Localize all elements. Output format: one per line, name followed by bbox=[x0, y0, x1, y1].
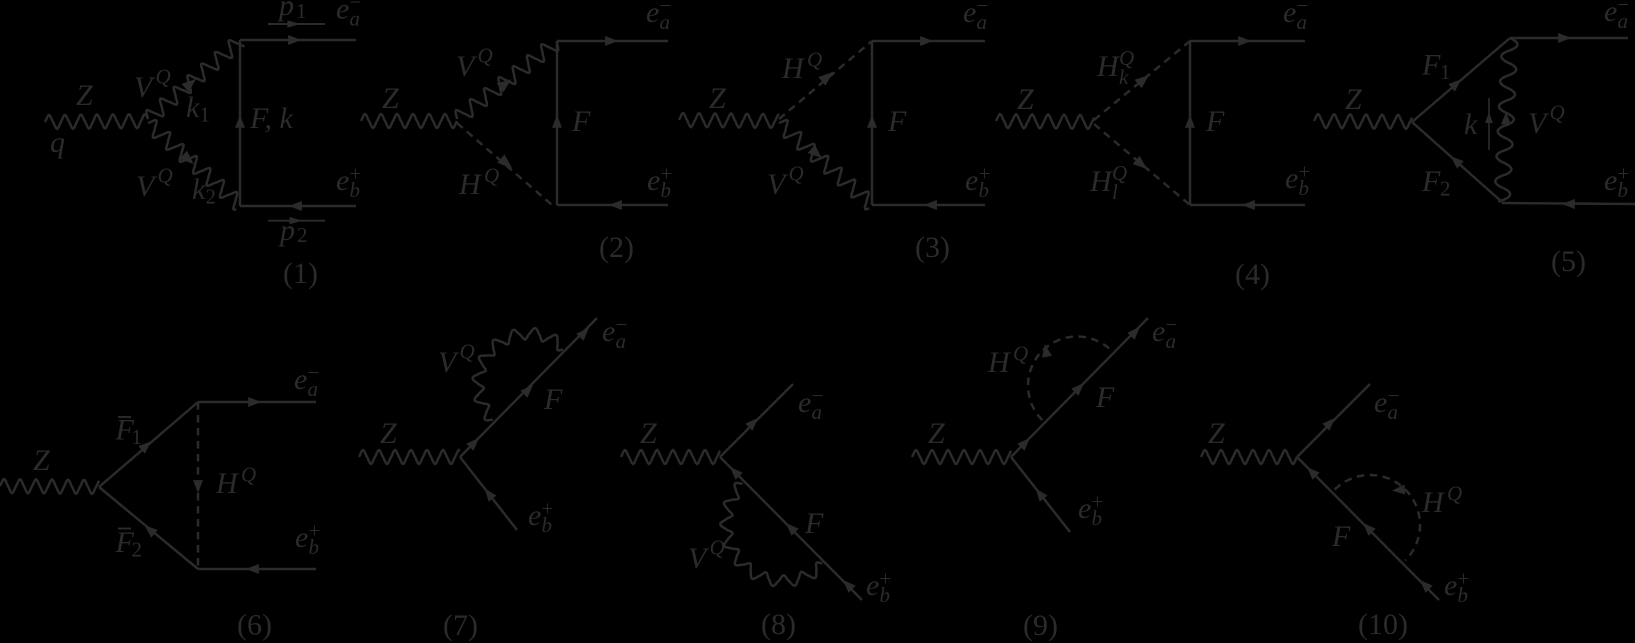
svg-text:(1): (1) bbox=[283, 257, 318, 290]
diagram 7: Z boson propagator bbox=[359, 450, 460, 464]
diagram 10: Z boson propagator bbox=[1201, 450, 1297, 464]
diagram 2: arrow on H^Q bbox=[497, 154, 512, 168]
svg-text:e+b: e+b bbox=[965, 162, 990, 202]
svg-text:Z: Z bbox=[640, 417, 657, 450]
diagram 2: arrow on V^Q bbox=[497, 79, 511, 92]
diagram 1: V^Q boson line (lower) bbox=[148, 120, 237, 210]
svg-text:(10): (10) bbox=[1358, 608, 1408, 641]
diagram 9: arrow near vertex bbox=[1017, 438, 1030, 451]
diagram 8: arrow on e_a line bbox=[745, 418, 758, 431]
diagram 9: arrow on F segment bbox=[1071, 383, 1084, 396]
diagram 5: label e_b^+ bbox=[1604, 162, 1629, 202]
svg-text:e+b: e+b bbox=[1078, 490, 1103, 530]
diagram 5: Z boson propagator bbox=[1314, 114, 1412, 129]
svg-text:F: F bbox=[571, 105, 591, 138]
diagram 10: arrow on e_a line bbox=[1322, 418, 1335, 431]
diagram 2: arrow on e_a line bbox=[605, 36, 618, 46]
svg-text:Z: Z bbox=[1208, 417, 1225, 450]
diagram 10: arrow on H^Q loop bbox=[1392, 485, 1405, 495]
svg-text:F: F bbox=[543, 383, 563, 416]
diagram 5: fermion line F2 bbox=[1412, 122, 1502, 202]
diagram 1: label Z bbox=[76, 79, 93, 112]
svg-text:F, k: F, k bbox=[249, 102, 293, 135]
diagram 2: electron line e_a bbox=[557, 40, 668, 42]
svg-text:e−a: e−a bbox=[1283, 0, 1308, 34]
diagram 9: H^Q scalar loop bbox=[1028, 337, 1112, 421]
diagram 5: momentum arrow k bbox=[1485, 98, 1493, 150]
diagram 1: arrow on F line bbox=[235, 115, 245, 128]
svg-text:(4): (4) bbox=[1235, 258, 1270, 291]
diagram 8: arrow on F segment bbox=[786, 523, 799, 536]
svg-text:q: q bbox=[50, 126, 65, 159]
diagram 5: electron line e_a bbox=[1510, 37, 1628, 39]
diagram 4: electron line e_a bbox=[1190, 40, 1305, 42]
diagram 1: label k2 bbox=[192, 173, 216, 209]
diagram 1: label p2 bbox=[278, 214, 308, 247]
diagram 3: arrow on H^Q bbox=[818, 72, 833, 86]
diagram 1: caption (1) bbox=[283, 257, 318, 290]
diagram 1: label V^Q (upper) bbox=[134, 65, 171, 105]
diagram 10: arrow on F segment bbox=[1363, 523, 1376, 536]
diagram 1: arrow on lower V^Q bbox=[180, 151, 194, 164]
diagram 4: positron line e_b bbox=[1190, 204, 1305, 206]
diagram 10: label H^Q bbox=[1421, 482, 1462, 520]
diagram 1: momentum arrow p1 bbox=[268, 20, 325, 28]
svg-text:e+b: e+b bbox=[866, 567, 891, 607]
diagram 4: arrow on upper H_k^Q bbox=[1135, 75, 1149, 88]
diagram 7: positron line e_b bbox=[460, 457, 517, 530]
diagram 7: label e_a^- bbox=[602, 313, 627, 353]
svg-text:Z: Z bbox=[76, 79, 93, 112]
svg-text:Z: Z bbox=[382, 82, 399, 115]
svg-text:(2): (2) bbox=[599, 231, 634, 264]
diagram 1: label k1 bbox=[186, 91, 210, 127]
svg-text:e+b: e+b bbox=[1604, 162, 1629, 202]
diagram 10: caption (10) bbox=[1358, 608, 1408, 641]
diagram 7: arrow on e_b line bbox=[485, 488, 497, 501]
svg-text:(3): (3) bbox=[915, 231, 950, 264]
svg-text:e+b: e+b bbox=[336, 162, 361, 202]
svg-text:Z: Z bbox=[709, 82, 726, 115]
diagram 6: H^Q scalar internal line bbox=[197, 402, 199, 569]
diagram 2: arrow on e_b line bbox=[609, 200, 622, 210]
diagram 10: electron line e_a bbox=[1297, 384, 1370, 457]
diagram 6: arrow on F1bar bbox=[138, 441, 151, 453]
diagram 2: positron line e_b bbox=[557, 204, 668, 206]
diagram 4: Z boson propagator bbox=[996, 114, 1094, 129]
diagram 4: arrow on e_a line bbox=[1238, 36, 1251, 46]
diagram 6: label H^Q bbox=[215, 463, 256, 501]
diagram 6: label F1bar bbox=[115, 414, 143, 450]
diagram 7: label Z bbox=[380, 417, 397, 450]
diagram 5: V^Q boson internal line bbox=[1495, 38, 1517, 202]
diagram 7: arrow on F segment bbox=[520, 385, 533, 398]
diagram 6: positron line e_b bbox=[198, 568, 316, 570]
diagram 5: caption (5) bbox=[1551, 245, 1586, 278]
diagram 9: label F bbox=[1095, 381, 1115, 414]
svg-text:Z: Z bbox=[1345, 83, 1362, 116]
diagram 5: fermion line F1 bbox=[1412, 38, 1510, 122]
svg-text:e−a: e−a bbox=[602, 313, 627, 353]
diagram 5: positron line e_b bbox=[1502, 203, 1635, 204]
diagram 9: positron line e_b bbox=[1011, 457, 1070, 532]
diagram 6: arrow on F2bar bbox=[145, 525, 158, 537]
diagram 6: fermion line F2bar bbox=[99, 487, 198, 569]
svg-text:e−a: e−a bbox=[294, 361, 319, 401]
diagram 8: label F bbox=[804, 507, 824, 540]
diagram 6: label Z bbox=[33, 444, 50, 477]
diagram 3: electron line e_a bbox=[872, 40, 985, 42]
diagram 8: label Z bbox=[640, 417, 657, 450]
diagram 5: label Z bbox=[1345, 83, 1362, 116]
diagram 10: label e_b^+ bbox=[1444, 567, 1469, 607]
diagram 9: caption (9) bbox=[1023, 609, 1058, 642]
diagram 10: label F bbox=[1331, 520, 1351, 553]
svg-text:e+b: e+b bbox=[1285, 160, 1310, 200]
diagram 7: arrow near e_a end bbox=[576, 328, 589, 341]
diagram 7: label V^Q bbox=[438, 340, 475, 380]
diagram 9: arrow near e_a end bbox=[1127, 327, 1140, 340]
diagram 4: label H_k^Q bbox=[1096, 46, 1134, 89]
diagram 2: caption (2) bbox=[599, 231, 634, 264]
diagram 5: arrow on e_a line bbox=[1558, 33, 1571, 43]
diagram 10: label e_a^- bbox=[1374, 384, 1399, 424]
diagram 4: label Z bbox=[1017, 83, 1034, 116]
diagram 4: label e_b^+ bbox=[1285, 160, 1310, 200]
diagram 2: label F bbox=[571, 105, 591, 138]
diagram 8: arrow near e_b end bbox=[843, 580, 856, 593]
diagram 1: label q bbox=[50, 126, 65, 159]
diagram 5: arrow on F1 bbox=[1448, 79, 1461, 91]
diagram 1: momentum arrow p2 bbox=[268, 217, 325, 225]
diagram 7: caption (7) bbox=[443, 609, 478, 642]
diagram 9: arrow on e_b line bbox=[1036, 488, 1048, 501]
diagram 9: electron line with F propagator bbox=[1011, 318, 1148, 457]
diagram 6: fermion line F1bar bbox=[99, 402, 198, 487]
diagram 6: label e_a^- bbox=[294, 361, 319, 401]
diagram 10: arrow near vertex bbox=[1307, 467, 1320, 480]
diagram 9: label e_b^+ bbox=[1078, 490, 1103, 530]
diagram 1: positron line e_b bbox=[240, 205, 356, 207]
diagram 2: fermion line F bbox=[556, 41, 558, 205]
diagram 3: positron line e_b bbox=[872, 204, 985, 206]
diagram 1: arrow on e_a line bbox=[288, 35, 301, 45]
diagram 8: caption (8) bbox=[761, 608, 796, 641]
diagram 2: label V^Q bbox=[456, 44, 493, 84]
diagram 1: label e_a^- bbox=[336, 0, 361, 30]
diagram 9: label Z bbox=[928, 417, 945, 450]
diagram 3: arrow on e_b line bbox=[924, 200, 937, 210]
diagram 4: label e_a^- bbox=[1283, 0, 1308, 34]
diagram 3: label e_b^+ bbox=[965, 162, 990, 202]
diagram 8: label e_b^+ bbox=[866, 567, 891, 607]
diagram 1: fermion line F bbox=[239, 40, 241, 206]
svg-text:Z: Z bbox=[928, 417, 945, 450]
diagram 1: label V^Q (lower) bbox=[136, 164, 173, 204]
diagram 3: arrow on e_a line bbox=[920, 36, 933, 46]
diagram 5: arrow on e_b line bbox=[1562, 199, 1575, 209]
diagram 4: fermion line F bbox=[1189, 41, 1191, 205]
diagram 8: label V^Q bbox=[688, 536, 725, 576]
diagram 8: label e_a^- bbox=[798, 384, 823, 424]
diagram 5: label F1 bbox=[1421, 49, 1451, 85]
diagram 4: H_l^Q scalar line (lower) bbox=[1094, 124, 1190, 205]
diagram 7: label F bbox=[543, 383, 563, 416]
diagram 10: label Z bbox=[1208, 417, 1225, 450]
svg-text:k: k bbox=[1464, 108, 1478, 141]
diagram 2: arrow on F line bbox=[552, 115, 562, 128]
svg-text:F: F bbox=[804, 507, 824, 540]
diagram 4: arrow on lower H_l^Q bbox=[1133, 156, 1147, 169]
diagram 1: label e_b^+ bbox=[336, 162, 361, 202]
svg-text:Z: Z bbox=[380, 417, 397, 450]
diagram 3: label F bbox=[887, 105, 907, 138]
diagram 1: arrow on upper V^Q bbox=[182, 79, 196, 92]
diagram 3: arrow on V^Q bbox=[808, 145, 822, 158]
svg-text:F: F bbox=[1095, 381, 1115, 414]
svg-text:Z: Z bbox=[33, 444, 50, 477]
diagram 7: electron line with F propagator bbox=[460, 318, 597, 457]
diagram 3: label V^Q bbox=[767, 162, 804, 202]
diagram 5: label V^Q bbox=[1528, 101, 1565, 141]
diagram 3: label e_a^- bbox=[963, 0, 988, 34]
diagram 9: label e_a^- bbox=[1152, 313, 1177, 353]
diagram 1: label F, k bbox=[249, 102, 293, 135]
diagram 1: electron line e_a bbox=[240, 39, 356, 41]
diagram 4: label F bbox=[1205, 105, 1225, 138]
svg-text:e−a: e−a bbox=[646, 0, 671, 34]
diagram 2: label e_b^+ bbox=[647, 162, 672, 202]
svg-text:(9): (9) bbox=[1023, 609, 1058, 642]
diagram 3: H^Q scalar line bbox=[779, 41, 872, 119]
svg-text:e−a: e−a bbox=[963, 0, 988, 34]
svg-text:e+b: e+b bbox=[647, 162, 672, 202]
diagram 4: caption (4) bbox=[1235, 258, 1270, 291]
diagram 8: positron line with F propagator bbox=[720, 457, 862, 600]
svg-text:F: F bbox=[1331, 520, 1351, 553]
diagram 1: arrow on e_b line bbox=[289, 201, 302, 211]
svg-text:Z: Z bbox=[1017, 83, 1034, 116]
diagram 5: label k bbox=[1464, 108, 1478, 141]
svg-text:e+b: e+b bbox=[528, 497, 553, 537]
diagram 4: H_k^Q scalar line (upper) bbox=[1094, 41, 1190, 120]
diagram 7: label e_b^+ bbox=[528, 497, 553, 537]
svg-text:p1: p1 bbox=[277, 0, 307, 23]
svg-text:(7): (7) bbox=[443, 609, 478, 642]
diagram 9: Z boson propagator bbox=[912, 450, 1011, 464]
diagram 6: arrow on H^Q bbox=[193, 480, 203, 493]
svg-text:e+b: e+b bbox=[1444, 567, 1469, 607]
svg-text:e−a: e−a bbox=[798, 384, 823, 424]
diagram 8: arrow near vertex bbox=[730, 467, 743, 480]
diagram 4: arrow on e_b line bbox=[1242, 200, 1255, 210]
diagram 1: Z boson propagator bbox=[45, 114, 148, 129]
diagram 6: arrow on e_b line bbox=[246, 564, 259, 574]
diagram 9: arrow on H^Q loop bbox=[1042, 344, 1052, 358]
diagram 5: arrow on F2 bbox=[1451, 156, 1464, 168]
diagram 8: electron line e_a bbox=[720, 384, 793, 457]
diagram 8: V^Q boson loop bbox=[720, 483, 822, 586]
svg-text:(5): (5) bbox=[1551, 245, 1586, 278]
svg-text:e−a: e−a bbox=[1604, 0, 1629, 33]
diagram 6: label e_b^+ bbox=[295, 519, 320, 559]
diagram 5: label F2 bbox=[1421, 165, 1451, 201]
diagram 5: label e_a^- bbox=[1604, 0, 1629, 33]
diagram 2: label Z bbox=[382, 82, 399, 115]
svg-text:F: F bbox=[887, 105, 907, 138]
svg-text:e−a: e−a bbox=[1374, 384, 1399, 424]
diagram 3: label Z bbox=[709, 82, 726, 115]
diagram 2: Z boson propagator bbox=[361, 114, 457, 128]
diagram 6: arrow on e_a line bbox=[248, 397, 261, 407]
diagram 6: label F2bar bbox=[115, 526, 143, 562]
diagram 2: H^Q scalar line bbox=[457, 123, 552, 205]
svg-text:e+b: e+b bbox=[295, 519, 320, 559]
diagram 6: electron line e_a bbox=[198, 401, 316, 403]
diagram 4: label H_l^Q bbox=[1089, 161, 1127, 204]
diagram 3: Z boson propagator bbox=[679, 113, 779, 128]
diagram 3: arrow on F line bbox=[867, 115, 877, 128]
diagram 6: Z boson propagator bbox=[0, 479, 99, 494]
diagram 2: label H^Q bbox=[458, 164, 499, 202]
diagram 10: H^Q scalar loop bbox=[1335, 475, 1420, 560]
diagram 10: arrow near e_b end bbox=[1420, 580, 1433, 593]
diagram 8: Z boson propagator bbox=[621, 450, 720, 464]
diagram 2: label e_a^- bbox=[646, 0, 671, 34]
diagram 1: label p1 bbox=[277, 0, 307, 23]
diagram 5: arrow on V^Q bbox=[1501, 112, 1511, 124]
svg-text:(6): (6) bbox=[237, 609, 272, 642]
svg-text:(8): (8) bbox=[761, 608, 796, 641]
svg-text:e−a: e−a bbox=[1152, 313, 1177, 353]
svg-text:F: F bbox=[1205, 105, 1225, 138]
diagram 10: positron line with F propagator bbox=[1297, 457, 1439, 600]
diagram 7: V^Q boson loop bbox=[473, 328, 563, 420]
diagram 7: arrow near vertex bbox=[466, 438, 479, 451]
diagram 3: label H^Q bbox=[781, 48, 822, 86]
diagram 2: V^Q boson line bbox=[456, 42, 559, 119]
diagram 4: arrow on F line bbox=[1185, 115, 1195, 128]
diagram 9: label H^Q bbox=[987, 342, 1028, 380]
diagram 3: V^Q boson line bbox=[779, 120, 869, 209]
diagram 1: V^Q boson line (upper) bbox=[146, 40, 244, 119]
diagram 3: caption (3) bbox=[915, 231, 950, 264]
diagram 6: caption (6) bbox=[237, 609, 272, 642]
diagram 3: fermion line F bbox=[871, 41, 873, 205]
